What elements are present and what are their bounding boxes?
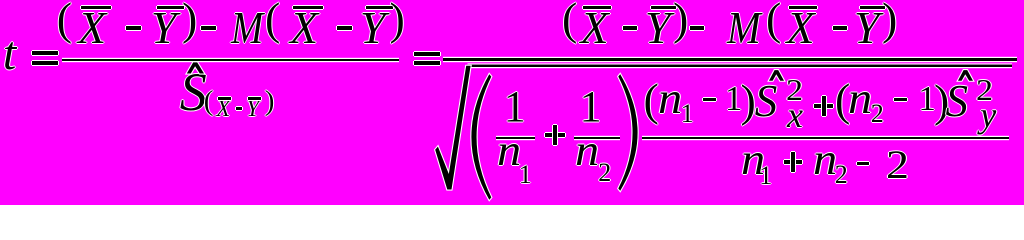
R-num X1 — [581, 5, 609, 51]
plus 2 — [814, 104, 833, 108]
big close paren — [618, 74, 637, 191]
L-den S — [180, 65, 207, 119]
hat over L-den S — [187, 62, 204, 73]
L-num Y2 — [360, 5, 386, 51]
frac b bar — [574, 137, 620, 139]
I-den n2 — [813, 138, 837, 182]
R-num M — [727, 5, 761, 51]
R-num open paren 2 — [766, 0, 781, 42]
fraction bar 2 — [443, 58, 1017, 61]
I-num n2 — [848, 77, 872, 121]
radical stroke — [435, 66, 470, 190]
L-num X1 — [78, 5, 106, 51]
frac a numerator 1 — [504, 85, 526, 129]
L-den sub minus — [236, 107, 243, 110]
L-den sub Y overbar — [248, 97, 261, 100]
L-num minus 1 — [126, 26, 141, 29]
I-num S1 — [755, 79, 778, 124]
I-num sup 2b — [976, 74, 993, 105]
I-num minus 2 — [894, 98, 907, 101]
L-den sub X overbar — [218, 97, 232, 100]
L-num X2 overbar — [293, 6, 323, 9]
I-num sup 2a — [786, 74, 803, 105]
R-num Y2 overbar — [860, 6, 885, 9]
L-num Y2 overbar — [366, 6, 393, 9]
plus 3 — [784, 160, 802, 164]
equals 1 bottom — [32, 61, 58, 65]
frac b numerator 1 — [580, 85, 602, 129]
L-num close paren 1 — [182, 0, 197, 42]
I-num close paren 1 — [741, 78, 756, 124]
R-num X2 — [787, 5, 815, 51]
variable t — [3, 30, 16, 78]
I-num one 2 — [918, 81, 936, 116]
R-num X1 overbar — [583, 6, 611, 9]
plus 1 — [545, 133, 566, 137]
R-num Y1 overbar — [651, 6, 676, 9]
equals 2 top — [414, 52, 440, 56]
I-den sub 2 — [835, 162, 848, 188]
R-num minus 3 — [833, 26, 847, 29]
L-num open paren 1 — [57, 0, 72, 42]
big open paren — [471, 74, 491, 200]
R-num close paren 1 — [673, 0, 688, 42]
I-den minus — [857, 162, 869, 165]
radical bar — [468, 63, 1013, 64]
I-num sub 1 — [681, 101, 694, 127]
L-num M — [231, 5, 263, 51]
L-den sub close paren — [265, 87, 275, 116]
L-den sub open paren — [204, 87, 214, 116]
R-num minus 1 — [623, 26, 637, 29]
I-num close paren 2 — [934, 78, 949, 124]
I-den two — [886, 145, 909, 185]
I-num minus 1 — [703, 98, 716, 101]
R-num Y2 — [854, 5, 880, 51]
L-den sub Y — [246, 97, 259, 120]
L-num X2 — [290, 5, 318, 51]
I-num n1 — [658, 77, 682, 121]
frac a n — [497, 129, 521, 173]
equals 1 top — [32, 51, 58, 55]
frac a sub 1 — [519, 162, 532, 188]
L-num Y1 — [151, 5, 177, 51]
hat over S2 — [958, 70, 973, 81]
frac b n — [575, 129, 599, 173]
L-num X1 overbar — [81, 6, 111, 9]
I-den sub 1 — [759, 163, 772, 189]
L-num open paren 2 — [265, 0, 280, 42]
R-num X2 overbar — [789, 6, 817, 9]
I-den n1 — [741, 138, 765, 182]
R-num minus 2 — [690, 26, 704, 29]
frac a bar — [496, 137, 535, 139]
inner fraction bar — [642, 137, 1009, 139]
fraction bar 1 — [62, 59, 399, 62]
I-num sub x — [787, 97, 803, 133]
L-num minus 3 — [337, 26, 352, 29]
I-num S2 — [946, 79, 969, 124]
I-num sub y — [980, 97, 996, 133]
I-num sub 2 — [871, 101, 884, 127]
L-num minus 2 — [201, 26, 216, 29]
I-num open paren 2 — [835, 77, 850, 123]
L-num close paren 2 — [390, 0, 405, 42]
R-num open paren 1 — [562, 0, 577, 42]
L-den sub X — [216, 97, 230, 120]
L-num Y1 overbar — [157, 6, 184, 9]
frac b sub 2 — [598, 160, 611, 186]
equals 2 bottom — [414, 61, 440, 65]
I-num open paren 1 — [644, 77, 659, 123]
I-num one 1 — [725, 81, 743, 116]
R-num Y1 — [645, 5, 671, 51]
R-num close paren 2 — [882, 0, 897, 42]
hat over S1 — [769, 70, 784, 81]
